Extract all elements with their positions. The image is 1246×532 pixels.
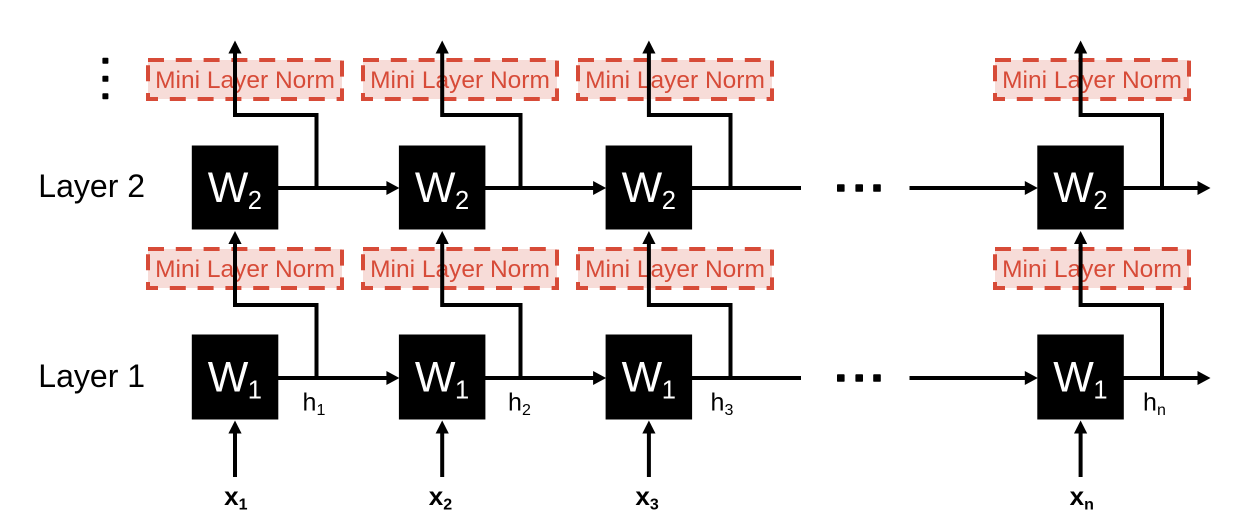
- svg-text:W: W: [208, 164, 249, 212]
- svg-text:1: 1: [317, 402, 326, 419]
- svg-text:Mini Layer Norm: Mini Layer Norm: [155, 67, 335, 94]
- svg-text:1: 1: [455, 377, 469, 405]
- svg-text:Mini Layer Norm: Mini Layer Norm: [585, 256, 765, 283]
- svg-text:n: n: [1084, 497, 1094, 514]
- svg-text:h: h: [303, 389, 317, 417]
- svg-text:W: W: [1053, 354, 1094, 402]
- svg-text:Mini Layer Norm: Mini Layer Norm: [1002, 67, 1182, 94]
- svg-text:3: 3: [725, 402, 734, 419]
- svg-text:2: 2: [522, 402, 531, 419]
- svg-text:Layer 2: Layer 2: [38, 168, 145, 204]
- svg-text:1: 1: [239, 497, 248, 514]
- svg-text:Layer 1: Layer 1: [38, 358, 145, 394]
- svg-text:2: 2: [662, 187, 676, 215]
- svg-text:W: W: [622, 354, 663, 402]
- svg-text:1: 1: [248, 377, 262, 405]
- svg-text:n: n: [1157, 402, 1166, 419]
- svg-text:W: W: [415, 354, 456, 402]
- svg-text:Mini Layer Norm: Mini Layer Norm: [155, 256, 335, 283]
- svg-text:W: W: [622, 164, 663, 212]
- svg-text:2: 2: [443, 497, 452, 514]
- svg-text:W: W: [208, 354, 249, 402]
- svg-text:x: x: [224, 481, 239, 511]
- svg-text:2: 2: [455, 187, 469, 215]
- svg-text:W: W: [1053, 164, 1094, 212]
- svg-text:Mini Layer Norm: Mini Layer Norm: [370, 67, 550, 94]
- svg-text:1: 1: [662, 377, 676, 405]
- svg-text:h: h: [1143, 389, 1157, 417]
- svg-text:W: W: [415, 164, 456, 212]
- svg-text:h: h: [711, 389, 725, 417]
- svg-text:1: 1: [1093, 377, 1107, 405]
- svg-text:x: x: [635, 481, 650, 511]
- svg-text:x: x: [1070, 481, 1085, 511]
- svg-text:x: x: [429, 481, 444, 511]
- svg-text:Mini Layer Norm: Mini Layer Norm: [370, 256, 550, 283]
- svg-text:Mini Layer Norm: Mini Layer Norm: [585, 67, 765, 94]
- svg-text:3: 3: [650, 497, 659, 514]
- svg-text:2: 2: [1093, 187, 1107, 215]
- svg-text:h: h: [508, 389, 522, 417]
- svg-text:Mini Layer Norm: Mini Layer Norm: [1002, 256, 1182, 283]
- svg-text:2: 2: [248, 187, 262, 215]
